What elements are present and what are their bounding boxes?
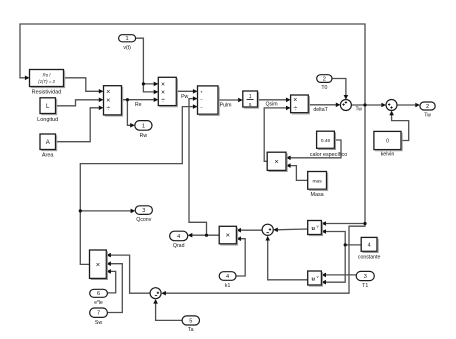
svg-text:0: 0 bbox=[386, 139, 389, 145]
svg-text:Qsim: Qsim bbox=[265, 102, 277, 108]
svg-text:3: 3 bbox=[364, 274, 367, 280]
svg-text:u: u bbox=[311, 226, 315, 232]
svg-text:5: 5 bbox=[189, 318, 192, 324]
svg-text:(1(T) = 3: (1(T) = 3 bbox=[38, 79, 55, 84]
svg-text:1: 1 bbox=[142, 123, 145, 129]
svg-text:Ro l: Ro l bbox=[43, 73, 52, 78]
svg-text:Re: Re bbox=[135, 102, 142, 108]
svg-text:Masa: Masa bbox=[311, 192, 324, 198]
svg-text:Qconv: Qconv bbox=[136, 217, 151, 223]
svg-text:Area: Area bbox=[42, 153, 55, 159]
svg-text:u: u bbox=[311, 277, 315, 283]
svg-text:−: − bbox=[200, 105, 203, 110]
svg-text:×: × bbox=[161, 89, 165, 96]
svg-text:4: 4 bbox=[226, 274, 229, 280]
svg-text:×: × bbox=[96, 260, 100, 269]
svg-text:Tw: Tw bbox=[356, 106, 363, 112]
svg-text:k1: k1 bbox=[225, 283, 231, 289]
svg-text:kelvin: kelvin bbox=[381, 152, 395, 158]
svg-text:Tw: Tw bbox=[424, 113, 431, 119]
svg-text:T0: T0 bbox=[321, 85, 327, 91]
svg-text:×: × bbox=[274, 157, 278, 166]
svg-text:Resistividad: Resistividad bbox=[32, 90, 62, 96]
svg-text:÷: ÷ bbox=[293, 106, 297, 113]
svg-text:Pulm: Pulm bbox=[220, 102, 232, 108]
svg-text:Rw: Rw bbox=[140, 133, 148, 139]
svg-text:6: 6 bbox=[97, 291, 100, 297]
svg-text:A: A bbox=[46, 140, 50, 146]
svg-text:Sw: Sw bbox=[95, 320, 102, 326]
svg-text:×: × bbox=[106, 89, 110, 96]
svg-text:v: v bbox=[317, 223, 319, 228]
svg-text:constante: constante bbox=[358, 254, 381, 260]
svg-text:2: 2 bbox=[426, 104, 429, 110]
svg-text:Longitud: Longitud bbox=[37, 117, 58, 123]
svg-text:+: + bbox=[200, 89, 203, 94]
svg-text:÷: ÷ bbox=[106, 106, 110, 113]
svg-text:7: 7 bbox=[97, 311, 100, 317]
svg-text:mas: mas bbox=[312, 179, 322, 184]
svg-text:×: × bbox=[226, 231, 230, 240]
svg-text:v(t): v(t) bbox=[123, 45, 131, 51]
svg-text:calor específico: calor específico bbox=[310, 152, 347, 158]
svg-text:1: 1 bbox=[126, 36, 129, 42]
svg-text:×: × bbox=[161, 81, 165, 88]
svg-text:4: 4 bbox=[368, 243, 371, 249]
svg-text:÷: ÷ bbox=[161, 97, 165, 104]
svg-text:Ta: Ta bbox=[188, 327, 194, 333]
svg-text:2: 2 bbox=[323, 76, 326, 82]
svg-text:1: 1 bbox=[249, 94, 252, 100]
svg-text:0.46: 0.46 bbox=[321, 138, 331, 144]
svg-text:Pw: Pw bbox=[181, 94, 188, 100]
svg-text:×: × bbox=[293, 97, 297, 104]
svg-text:e*le: e*le bbox=[94, 300, 103, 306]
svg-text:×: × bbox=[106, 97, 110, 104]
svg-text:deltaT: deltaT bbox=[313, 107, 328, 113]
svg-text:Qrad: Qrad bbox=[173, 243, 185, 249]
svg-text:−: − bbox=[200, 97, 203, 102]
svg-text:3: 3 bbox=[142, 208, 145, 214]
svg-text:T1: T1 bbox=[362, 283, 368, 289]
svg-text:v: v bbox=[317, 274, 319, 279]
svg-text:4: 4 bbox=[177, 234, 180, 240]
